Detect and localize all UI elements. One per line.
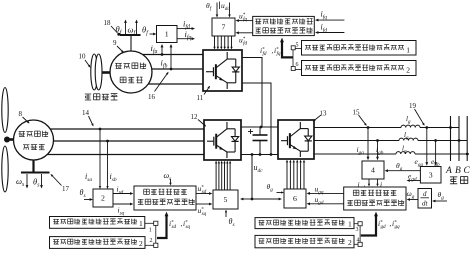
wire u_sd* from calc module to block 5: [196, 193, 210, 195]
grid bus A: [449, 116, 452, 161]
selector thick wire i*_sd i*_sq into machine calc module: [157, 212, 168, 238]
svg-text:2: 2: [348, 238, 352, 247]
switch contact 2: [145, 238, 158, 247]
svg-text:8: 8: [19, 110, 23, 118]
block 1: current transform (3s/2r) for flywheel machine: [157, 26, 178, 43]
flywheel motor 3-phase wires to flywheel converter: [140, 55, 203, 85]
svg-text:11: 11: [197, 94, 204, 102]
callout 9 -> flywheel motor: [113, 39, 124, 53]
flywheel motor M1 (permanent magnet synchronous motor): [110, 51, 152, 93]
svg-text:16: 16: [148, 93, 156, 101]
flywheel converter control-voltage calculation module: [253, 16, 315, 35]
flywheel machine-side converter (IGBT bridge) U11: [203, 50, 242, 91]
block 3: PLL / voltage transform: [420, 167, 441, 184]
wire theta_s into block 5 bottom: [225, 211, 227, 217]
wire u_dc into block 7 top: [229, 3, 231, 16]
switch contact 1: [145, 221, 158, 238]
DC link bottom rail: [241, 154, 278, 156]
wire i_sd from block 2 to calc module: [113, 193, 131, 195]
wire theta_g from block 3 to block 4: [387, 170, 421, 172]
svg-text:1: 1: [149, 228, 152, 234]
svg-text:12: 12: [191, 113, 199, 121]
generator encoder bracket: [21, 160, 50, 189]
switch contact 3: [354, 222, 362, 236]
tap i_ga node: [367, 126, 370, 160]
wire omega_s into calc module: [170, 179, 172, 184]
svg-text:6: 6: [293, 194, 297, 203]
svg-text:3: 3: [429, 170, 433, 179]
wire e_gd output of block 3: [409, 180, 421, 182]
svg-text:2: 2: [139, 239, 143, 248]
gate wires from block 6 up to grid-side converter (6 lines): [286, 160, 305, 189]
label: power grid (CJK): [450, 177, 468, 184]
callout 12 -> machine-side converter: [191, 113, 207, 127]
callout 16 -> tap node: [148, 72, 169, 101]
gate wires from block 5 up to machine-side converter (6 lines): [215, 161, 231, 190]
callout 18 -> encoder: [104, 19, 121, 36]
wire i_fq output of block 1: [177, 38, 193, 40]
machine-side converter control-mode module 1 box: [50, 217, 145, 229]
generator 3-phase wires to machine-side converter: [40, 129, 204, 155]
callout 14 -> generator phase wire: [82, 109, 93, 126]
svg-text:2: 2: [406, 66, 410, 75]
svg-text:4: 4: [357, 238, 360, 244]
tap i_gb node: [376, 139, 379, 160]
svg-text:2: 2: [150, 238, 153, 244]
callout 15 -> grid current tap: [353, 109, 367, 126]
svg-text:9: 9: [113, 39, 117, 47]
wire u_fd* from calc module to block 7: [238, 32, 253, 34]
labels A B C: [445, 166, 471, 176]
block d/dt differentiator: [418, 189, 432, 209]
divider bar: [219, 2, 221, 10]
callout 10 -> flywheel disc: [79, 53, 91, 68]
wire i_sq from block 2 to calc module: [113, 203, 131, 205]
switch contact 6: [291, 57, 301, 70]
wire i_gd from block 4 to calc module: [368, 179, 370, 185]
svg-text:1: 1: [406, 45, 410, 54]
u_dc sense wire down to PWM blocks: [240, 155, 282, 201]
wire i_fq input from right: [317, 19, 344, 21]
block 7: PWM generator for flywheel converter: [212, 18, 235, 36]
grid bus C: [466, 116, 469, 161]
label i*_gd, i*_gq: [378, 219, 400, 230]
label: flywheel device (CJK): [85, 94, 118, 101]
svg-text:2: 2: [101, 194, 105, 203]
selector thick wire i*_fd i*_fq into calc module: [280, 38, 293, 58]
wind turbine blades: [2, 88, 10, 193]
flywheel motor shaft: [102, 71, 111, 74]
selector thick wire i*_gd i*_gq into grid calc module: [361, 212, 378, 236]
block 2: current transform for machine side: [93, 189, 113, 207]
flywheel motor encoder bracket: [120, 20, 141, 52]
svg-text:5: 5: [296, 43, 299, 49]
grid-side converter control-mode module 1 box: [255, 218, 354, 229]
svg-text:A: A: [445, 166, 452, 176]
callout 19 -> grid voltage tap: [409, 102, 425, 126]
wire u_sq* from calc module to block 5: [196, 203, 210, 205]
callout 17 -> encoder: [51, 174, 70, 193]
grid-side converter (IGBT bridge) U13: [278, 120, 314, 159]
wire theta_g into block 6: [277, 192, 283, 194]
svg-text:d: d: [423, 190, 427, 198]
machine-side converter (IGBT bridge) U12: [204, 120, 241, 160]
switch contact 4: [354, 236, 362, 247]
callout 8 -> generator: [19, 110, 30, 124]
DC link capacitor C1: [248, 127, 268, 155]
wire i_fd input from right: [317, 32, 344, 34]
callout 13 -> grid-side converter: [313, 110, 327, 122]
tap i_sa node on generator phase a: [99, 128, 102, 189]
svg-text:C: C: [464, 166, 471, 176]
svg-text:10: 10: [79, 53, 87, 61]
block 5: PWM generator for machine-side converter: [213, 190, 238, 209]
wire omega_g from d/dt to calc module: [409, 199, 418, 201]
svg-text:13: 13: [320, 110, 328, 118]
turbine shaft: [9, 138, 15, 141]
wire theta_g into d/dt: [434, 200, 447, 202]
svg-text:1: 1: [165, 30, 169, 39]
svg-text:14: 14: [82, 109, 90, 117]
svg-text:17: 17: [62, 185, 70, 193]
callout 11 -> flywheel converter: [197, 86, 211, 102]
flywheel disc: [91, 54, 102, 90]
block 6: PWM generator for grid-side converter: [284, 189, 306, 208]
grid-side converter control-voltage calculation module: [344, 187, 406, 210]
svg-text:7: 7: [222, 23, 226, 32]
svg-text:18: 18: [104, 19, 112, 27]
wire theta_f into block 1: [150, 33, 155, 35]
svg-text:4: 4: [371, 166, 375, 175]
svg-text:19: 19: [409, 102, 417, 110]
grid phase wires with filter inductors: [314, 125, 469, 154]
label i*_fd, i*_fq: [260, 46, 281, 57]
DC link top rail: [241, 126, 278, 128]
machine-side converter control-mode module 2 box: [50, 237, 146, 249]
machine-side converter control-voltage calculation module: [134, 186, 196, 210]
svg-text:3: 3: [356, 227, 359, 233]
current tap i_fb (node on phase b): [170, 44, 173, 70]
flywheel converter control-mode module 1 box: [302, 41, 417, 56]
svg-text:1: 1: [348, 220, 352, 229]
svg-text:6: 6: [296, 62, 299, 68]
junction nodes DC-: [251, 153, 273, 156]
switch contact 5: [291, 43, 301, 58]
tap e_ga node: [425, 126, 428, 166]
flywheel converter control-mode module 2 box: [302, 61, 417, 76]
svg-text:5: 5: [224, 195, 228, 204]
grid-side converter control-mode module 2 box: [255, 235, 354, 247]
wire theta_s into block 2: [84, 199, 91, 201]
svg-text:1: 1: [139, 219, 143, 228]
generator G1 (permanent magnet synchronous generator): [14, 120, 54, 160]
block 4: current transform for grid side: [362, 161, 384, 179]
gate wires from block 7 to flywheel converter (6 lines): [213, 36, 232, 50]
wire u_gq from calc module to block 6: [309, 192, 344, 194]
DC- wire from flywheel converter to DC link: [242, 83, 271, 154]
wire theta_f into block 7 top: [216, 3, 218, 16]
wire i_gq from block 4 to calc module: [377, 179, 379, 185]
current tap i_fa (node on phase a): [161, 44, 164, 56]
label i*_sd, i*_sq: [169, 219, 190, 230]
tap i_sb node on generator phase b: [106, 140, 109, 189]
junction node DC+: [260, 126, 263, 129]
DC+ wire from flywheel converter to DC link: [242, 58, 262, 127]
wire u_fq* from calc module to block 7: [238, 20, 253, 22]
svg-text:B: B: [455, 166, 461, 176]
tap e_gb node: [434, 139, 437, 166]
grid bus B: [458, 116, 461, 161]
wire u_gd from calc module to block 6: [309, 203, 344, 205]
wire i_fd output of block 1: [177, 28, 193, 30]
